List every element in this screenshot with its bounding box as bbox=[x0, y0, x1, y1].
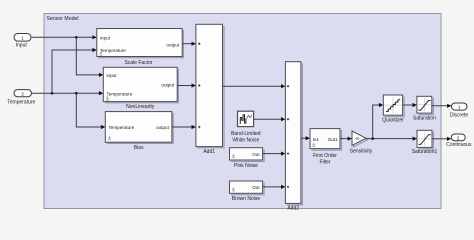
block Add2 bbox=[285, 62, 302, 212]
badge on NonLinearity bbox=[106, 96, 109, 100]
subsystem area box "Sensor Model" bbox=[44, 14, 441, 209]
svg-text:Bias: Bias bbox=[134, 145, 144, 151]
badge on Pink Noise bbox=[232, 154, 235, 158]
inport 2 Temperature bbox=[7, 90, 35, 106]
wire Add2 output to First Order Filter bbox=[301, 136, 310, 140]
svg-text:Saturation1: Saturation1 bbox=[412, 149, 438, 155]
svg-text:Saturation: Saturation bbox=[413, 115, 436, 121]
block Bias bbox=[105, 112, 173, 151]
wire Saturation to outport Discrete bbox=[432, 104, 452, 108]
outport 1 Discrete bbox=[450, 103, 469, 118]
wire Temperature branch up to Scale Factor Temperature bbox=[52, 48, 97, 93]
wire Scale Factor output to Add1 bbox=[182, 42, 196, 46]
wire Temperature branch down to Bias Temperature bbox=[76, 93, 105, 129]
svg-text:Sensitivity: Sensitivity bbox=[350, 148, 373, 154]
svg-text:Out: Out bbox=[252, 185, 260, 190]
wire Bias output to Add1 bbox=[172, 125, 196, 129]
svg-text:1: 1 bbox=[458, 105, 461, 110]
svg-text:White Noise: White Noise bbox=[232, 138, 259, 144]
badge on Scale Factor bbox=[99, 51, 102, 55]
block Scale Factor bbox=[97, 29, 184, 66]
badge on First Order Filter bbox=[312, 143, 315, 147]
badge on Bias bbox=[108, 136, 111, 140]
inport 1 Input bbox=[14, 34, 31, 49]
svg-text:Scale Factor: Scale Factor bbox=[124, 60, 152, 66]
svg-text:Discrete: Discrete bbox=[450, 112, 469, 118]
svg-text:output: output bbox=[166, 43, 179, 48]
svg-text:output: output bbox=[161, 83, 174, 88]
junction on Temperature wire (riser) bbox=[51, 92, 54, 95]
block Add1 bbox=[196, 24, 224, 155]
svg-text:input: input bbox=[100, 36, 111, 41]
svg-text:2: 2 bbox=[21, 91, 24, 96]
block Quantizer bbox=[382, 95, 404, 123]
wire Input branch down to NonLinearity input bbox=[76, 37, 103, 77]
svg-text:Quantizer: Quantizer bbox=[382, 117, 404, 123]
block NonLinearity bbox=[103, 67, 178, 110]
outport 2 Continuous bbox=[446, 134, 472, 148]
svg-text:-K-: -K- bbox=[355, 136, 361, 141]
wire NonLinearity output to Add1 bbox=[177, 83, 196, 87]
svg-text:Temperature: Temperature bbox=[109, 125, 135, 130]
svg-text:1: 1 bbox=[21, 36, 24, 41]
block First Order Filter bbox=[310, 129, 342, 166]
svg-text:Add1: Add1 bbox=[203, 149, 215, 155]
svg-text:Continuous: Continuous bbox=[446, 142, 472, 148]
svg-text:input: input bbox=[107, 73, 118, 78]
junction on Input wire bbox=[75, 36, 78, 39]
wire branch up to Quantizer bbox=[373, 103, 384, 139]
svg-text:Brown Noise: Brown Noise bbox=[232, 196, 261, 202]
svg-text:2: 2 bbox=[457, 135, 460, 140]
block Band-Limited White Noise bbox=[231, 111, 261, 143]
svg-text:Pink Noise: Pink Noise bbox=[234, 163, 258, 169]
junction on Temperature wire (drop to Bias) bbox=[75, 92, 78, 95]
svg-text:Temperature: Temperature bbox=[107, 91, 133, 96]
badge on Brown Noise bbox=[232, 187, 235, 191]
wire Temperature to NonLinearity Temperature bbox=[31, 91, 103, 95]
svg-text:Filter: Filter bbox=[319, 159, 330, 165]
svg-text:Band-Limited: Band-Limited bbox=[231, 131, 261, 137]
block Saturation1 bbox=[412, 130, 438, 155]
wire Input to Scale Factor input bbox=[31, 35, 97, 39]
wire Sensitivity to Saturation1 bbox=[366, 137, 417, 141]
svg-text:Temperature: Temperature bbox=[100, 48, 126, 53]
wire Pink Noise to Add2 bbox=[263, 152, 286, 156]
svg-text:output: output bbox=[156, 125, 169, 130]
svg-text:NonLinearity: NonLinearity bbox=[126, 104, 155, 110]
svg-text:Add2: Add2 bbox=[287, 206, 299, 212]
block Pink Noise bbox=[230, 148, 265, 169]
block Brown Noise bbox=[230, 181, 265, 202]
gain Sensitivity bbox=[350, 131, 373, 154]
junction after Sensitivity bbox=[371, 137, 374, 140]
wire Saturation1 to outport Continuous bbox=[432, 137, 451, 141]
wire Brown Noise to Add2 bbox=[263, 185, 286, 189]
svg-text:In1: In1 bbox=[313, 137, 320, 142]
wire First Order Filter to Sensitivity bbox=[340, 137, 352, 141]
wire Quantizer to Saturation bbox=[403, 103, 417, 107]
svg-text:Out1: Out1 bbox=[328, 137, 338, 142]
svg-text:Temperature: Temperature bbox=[7, 100, 35, 106]
svg-text:Input: Input bbox=[16, 43, 28, 49]
svg-text:First Order: First Order bbox=[313, 153, 337, 159]
block Saturation bbox=[413, 96, 436, 121]
wire Band-Limited White Noise to Add2 bbox=[254, 117, 286, 121]
svg-text:Out: Out bbox=[252, 152, 260, 157]
wire Add1 output to Add2 bbox=[223, 84, 286, 88]
svg-text:Sensor Model: Sensor Model bbox=[47, 16, 79, 22]
